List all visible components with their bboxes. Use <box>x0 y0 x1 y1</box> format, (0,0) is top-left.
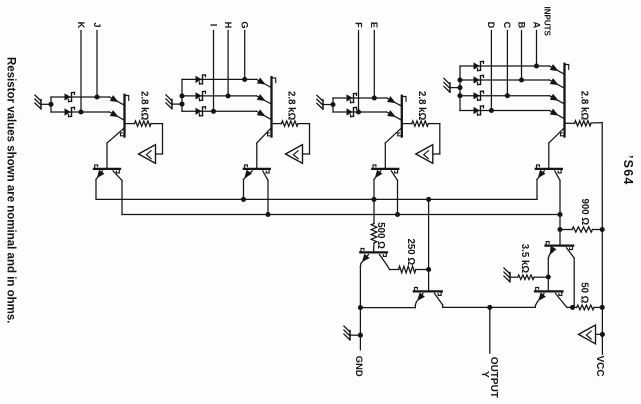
node (input K junction) <box>78 109 83 114</box>
collector of Q6 <box>380 255 399 270</box>
node (input G junction) <box>242 77 247 82</box>
emitter arrow (input G) <box>257 78 266 85</box>
clamp diode (input I) <box>196 107 206 116</box>
svg-text:D: D <box>486 22 496 29</box>
emitter of Q3 <box>548 246 556 290</box>
pin label B <box>516 22 526 29</box>
wire (output rail) <box>443 306 536 308</box>
wire (input G lead) <box>244 31 246 80</box>
node (250 ohm junction) <box>426 267 431 272</box>
pin label F <box>353 22 363 28</box>
collector of Q4 <box>556 294 573 308</box>
emitter arrow (input J) <box>110 95 119 102</box>
wire (input B lead) <box>521 31 523 81</box>
wire (emitter line D, A-B-C-D gate) <box>460 111 565 119</box>
svg-text:’S64: ’S64 <box>621 155 635 186</box>
svg-text:2.8 kΩ: 2.8 kΩ <box>286 91 297 121</box>
ground (input clamp return, G-H-I gate) <box>166 95 182 109</box>
svg-text:A: A <box>531 22 541 29</box>
svg-text:2.8 kΩ: 2.8 kΩ <box>139 91 150 121</box>
squaring transistor Q6 <box>360 248 387 256</box>
node (gnd bus at Q6 emitter) <box>358 305 363 310</box>
node (Q3 emitter / 3.5k node) <box>546 274 551 279</box>
pin label OUTPUT <box>488 357 499 398</box>
darlington transistor Q3 <box>546 242 574 250</box>
pin label Y <box>479 371 490 378</box>
clamp diode (input G) <box>196 75 206 84</box>
wire (base of phase splitter, J-K gate) <box>107 129 124 169</box>
wire (input K lead) <box>80 31 82 113</box>
VCC triangle symbol (E-F gate) <box>416 145 433 164</box>
pin label G <box>240 21 250 28</box>
svg-text:C: C <box>502 22 512 29</box>
wire (base of phase splitter, G-H-I gate) <box>257 129 271 169</box>
node (input F junction) <box>356 109 361 114</box>
pin label D <box>486 22 496 29</box>
emitter arrow (input I) <box>257 109 266 116</box>
wire (diode anode bus, A-B-C-D gate) <box>459 66 461 111</box>
ground (near GND pin) <box>344 326 361 340</box>
pin label K <box>76 22 86 29</box>
pin label GND <box>354 356 365 377</box>
collector of Q3 <box>567 248 575 308</box>
multi-emitter input transistor (G-H-I gate) <box>268 77 276 136</box>
node (900 ohm node) <box>557 227 562 232</box>
pin label E <box>369 22 379 28</box>
node (output tap) <box>487 305 492 310</box>
ground (input clamp return, A-B-C-D gate) <box>444 78 460 92</box>
ground (input clamp return, E-F gate) <box>317 95 333 109</box>
pin label J <box>92 22 102 27</box>
label 500 Ohm <box>375 222 386 249</box>
wire (input C lead) <box>506 31 508 96</box>
resistor 2.8 kOhm (J-K gate) <box>126 121 163 154</box>
svg-text:B: B <box>516 22 526 29</box>
label 2.8 kOhm (J-K) <box>139 91 150 121</box>
note (resistor values) <box>4 57 16 323</box>
label 50 Ohm <box>579 282 590 303</box>
svg-text:H: H <box>223 22 233 29</box>
svg-text:250 Ω: 250 Ω <box>405 239 416 266</box>
collector of phase splitter (G-H-I gate) <box>263 171 268 215</box>
clamp diode (input E) <box>347 93 357 102</box>
svg-text:K: K <box>76 22 86 29</box>
pin label C <box>502 22 512 29</box>
node (G-H-I emitter on rail) <box>241 197 246 202</box>
node (triangle at VCC rail) <box>600 332 605 337</box>
node (ground tap, A-B-C-D gate) <box>457 85 462 90</box>
resistor 250 Ohm <box>399 266 429 273</box>
label 3.5 kOhm <box>519 244 530 274</box>
svg-text:GND: GND <box>354 356 365 377</box>
emitter arrow (input K) <box>110 110 119 117</box>
resistor 2.8 kOhm (E-F gate) <box>403 121 440 154</box>
pin label I <box>208 24 218 27</box>
resistor 900 Ohm <box>560 227 602 232</box>
emitter of Q4 <box>535 292 546 307</box>
wire (base of phase splitter, A-B-C-D gate) <box>549 129 564 169</box>
wire (emitter line G, G-H-I gate) <box>182 79 272 87</box>
wire (emitter line K, J-K gate) <box>51 112 125 120</box>
emitter arrow (input A) <box>550 64 559 71</box>
wire (input J lead) <box>96 31 98 98</box>
node (input E junction) <box>372 95 377 100</box>
svg-text:G: G <box>240 21 250 28</box>
node (input A junction) <box>534 63 539 68</box>
resistor 2.8 kOhm (G-H-I gate) <box>273 121 310 154</box>
emitter of Q5 <box>415 292 425 307</box>
svg-text:VCC: VCC <box>594 356 605 377</box>
wire (input H lead) <box>227 31 229 96</box>
emitter of phase splitter (J-K gate) <box>96 170 105 200</box>
pin label H <box>223 22 233 29</box>
resistor 2.8 kOhm (A-B-C-D gate, to VCC rail) <box>566 121 603 126</box>
multi-emitter input transistor (A-B-C-D gate) <box>561 64 569 137</box>
svg-text:500 Ω: 500 Ω <box>375 222 386 249</box>
svg-text:E: E <box>369 22 379 28</box>
wire (emitter line I, G-H-I gate) <box>182 111 272 119</box>
svg-text:3.5 kΩ: 3.5 kΩ <box>519 244 530 274</box>
label 2.8 kOhm (G-H-I) <box>286 91 297 121</box>
label 2.8 kOhm (A-B-C-D) <box>579 91 590 121</box>
node (50 ohm at VCC rail) <box>600 305 605 310</box>
wire (emitter line A, A-B-C-D gate) <box>460 66 565 74</box>
clamp diode (input K) <box>65 107 75 116</box>
node (A-D collector on rail) <box>557 212 562 217</box>
label INPUTS <box>542 7 551 37</box>
pin label VCC <box>594 356 605 377</box>
wire (phase-splitter collector rail) <box>122 214 560 216</box>
wire (input D lead) <box>490 31 492 111</box>
emitter of phase splitter (A-B-C-D gate) <box>537 170 546 200</box>
node (E-F collector on rail) <box>395 212 400 217</box>
wire (VCC rail) <box>601 123 603 355</box>
node (ground tap, E-F gate) <box>330 102 335 107</box>
node (anode bus T, G-H-I gate) <box>179 93 184 98</box>
wire (diode anode bus, J-K gate) <box>50 97 52 112</box>
phase-splitter transistor (G-H-I gate) <box>244 165 270 173</box>
ground (3.5k return) <box>504 268 518 282</box>
wire (phase-splitter emitter rail) <box>96 198 537 200</box>
emitter arrow (input B) <box>550 78 559 85</box>
emitter of phase splitter (E-F gate) <box>374 170 383 200</box>
wire (emitter line E, E-F gate) <box>333 98 402 106</box>
svg-text:2.8 kΩ: 2.8 kΩ <box>579 91 590 121</box>
phase-splitter transistor (A-B-C-D gate) <box>536 165 562 173</box>
wire (pull-down base line) <box>428 199 430 290</box>
wire (input F lead) <box>358 31 360 113</box>
VCC triangle symbol (G-H-I gate) <box>286 145 303 164</box>
svg-text:900 Ω: 900 Ω <box>579 199 590 226</box>
svg-text:F: F <box>353 22 363 28</box>
ground (input clamp return, J-K gate) <box>35 95 51 109</box>
svg-text:J: J <box>92 22 102 27</box>
collector of phase splitter (A-B-C-D gate) <box>555 171 560 215</box>
wire (output lead) <box>489 307 491 353</box>
VCC triangle symbol (J-K gate) <box>139 145 156 164</box>
emitter arrow (input E) <box>387 96 396 103</box>
wire (diode anode bus, E-F gate) <box>332 98 334 112</box>
wire (emitter line C, A-B-C-D gate) <box>460 96 565 104</box>
label 250 Ohm <box>405 239 416 266</box>
output pull-up transistor Q4 <box>535 287 563 295</box>
emitter arrow (input C) <box>550 94 559 101</box>
VCC triangle symbol (at VCC pin) <box>579 325 603 344</box>
resistor 3.5 kOhm <box>518 275 549 280</box>
wire (input I lead) <box>213 31 215 112</box>
node (pull-down base tap) <box>426 197 431 202</box>
clamp diode (input F) <box>347 107 357 116</box>
clamp diode (input D) <box>474 106 484 115</box>
svg-text:50 Ω: 50 Ω <box>579 282 590 303</box>
wire (input E lead) <box>373 31 375 99</box>
multi-emitter input transistor (J-K gate) <box>121 95 129 137</box>
node (input D junction) <box>489 108 494 113</box>
clamp diode (input C) <box>474 91 484 100</box>
node (input J junction) <box>94 94 99 99</box>
collector of phase splitter (E-F gate) <box>391 171 397 215</box>
node (ground tap, G-H-I gate) <box>179 102 184 107</box>
clamp diode (input B) <box>474 75 484 84</box>
wire (diode anode bus, G-H-I gate) <box>181 79 183 111</box>
wire (collector node to 900 ohm / Q3 base) <box>559 215 561 245</box>
wire (emitter line B, A-B-C-D gate) <box>460 80 565 88</box>
collector of phase splitter (J-K gate) <box>113 171 122 215</box>
svg-text:2.8 kΩ: 2.8 kΩ <box>416 91 427 121</box>
wire (input A lead) <box>536 31 538 67</box>
emitter arrow (input F) <box>387 110 396 117</box>
node (900 ohm at VCC rail) <box>600 227 605 232</box>
node (input B junction) <box>519 77 524 82</box>
node (ground symbol tap) <box>358 333 363 338</box>
emitter of phase splitter (G-H-I gate) <box>244 170 253 200</box>
output pull-down transistor Q5 <box>414 287 442 295</box>
multi-emitter input transistor (E-F gate) <box>398 96 406 137</box>
wire (emitter line F, E-F gate) <box>333 112 402 120</box>
node (ground tap, J-K gate) <box>48 102 53 107</box>
title label 'S64 <box>621 155 635 186</box>
emitter arrow (input H) <box>257 94 266 101</box>
wire (Q6 emitter to Q5 emitter) <box>360 307 415 309</box>
svg-text:I: I <box>208 24 218 27</box>
phase-splitter transistor (J-K gate) <box>94 165 120 173</box>
emitter of Q6 <box>360 254 369 308</box>
emitter arrow (input D) <box>550 109 559 116</box>
node (input C junction) <box>505 93 510 98</box>
node (input H junction) <box>226 93 231 98</box>
wire (emitter line J, J-K gate) <box>51 97 125 105</box>
svg-text:Y: Y <box>479 371 490 378</box>
node (E-F emitter / 500 ohm tap) <box>371 197 376 202</box>
resistor 500 Ohm <box>371 199 377 251</box>
wire (emitter line H, G-H-I gate) <box>182 96 272 104</box>
svg-text:INPUTS: INPUTS <box>542 7 551 37</box>
phase-splitter transistor (E-F gate) <box>372 165 398 173</box>
node (pull-up collector node) <box>570 305 575 310</box>
clamp diode (input J) <box>65 92 75 101</box>
label 2.8 kOhm (E-F) <box>416 91 427 121</box>
resistor 50 Ohm <box>573 305 603 310</box>
node (G-H-I collector on rail) <box>265 212 270 217</box>
clamp diode (input A) <box>474 61 484 70</box>
clamp diode (input H) <box>196 91 206 100</box>
wire (base of phase splitter, E-F gate) <box>385 129 401 169</box>
node (input I junction) <box>211 109 216 114</box>
collector of Q5 <box>435 294 443 308</box>
wire (gnd lead) <box>359 308 361 350</box>
node (anode bus T, A-B-C-D gate) <box>457 77 462 82</box>
label 900 Ohm <box>579 199 590 226</box>
svg-text:Resistor values shown are nomi: Resistor values shown are nominal and in… <box>4 57 16 323</box>
node (anode bus T, A-B-C-D gate) <box>457 93 462 98</box>
pin label A <box>531 22 541 29</box>
